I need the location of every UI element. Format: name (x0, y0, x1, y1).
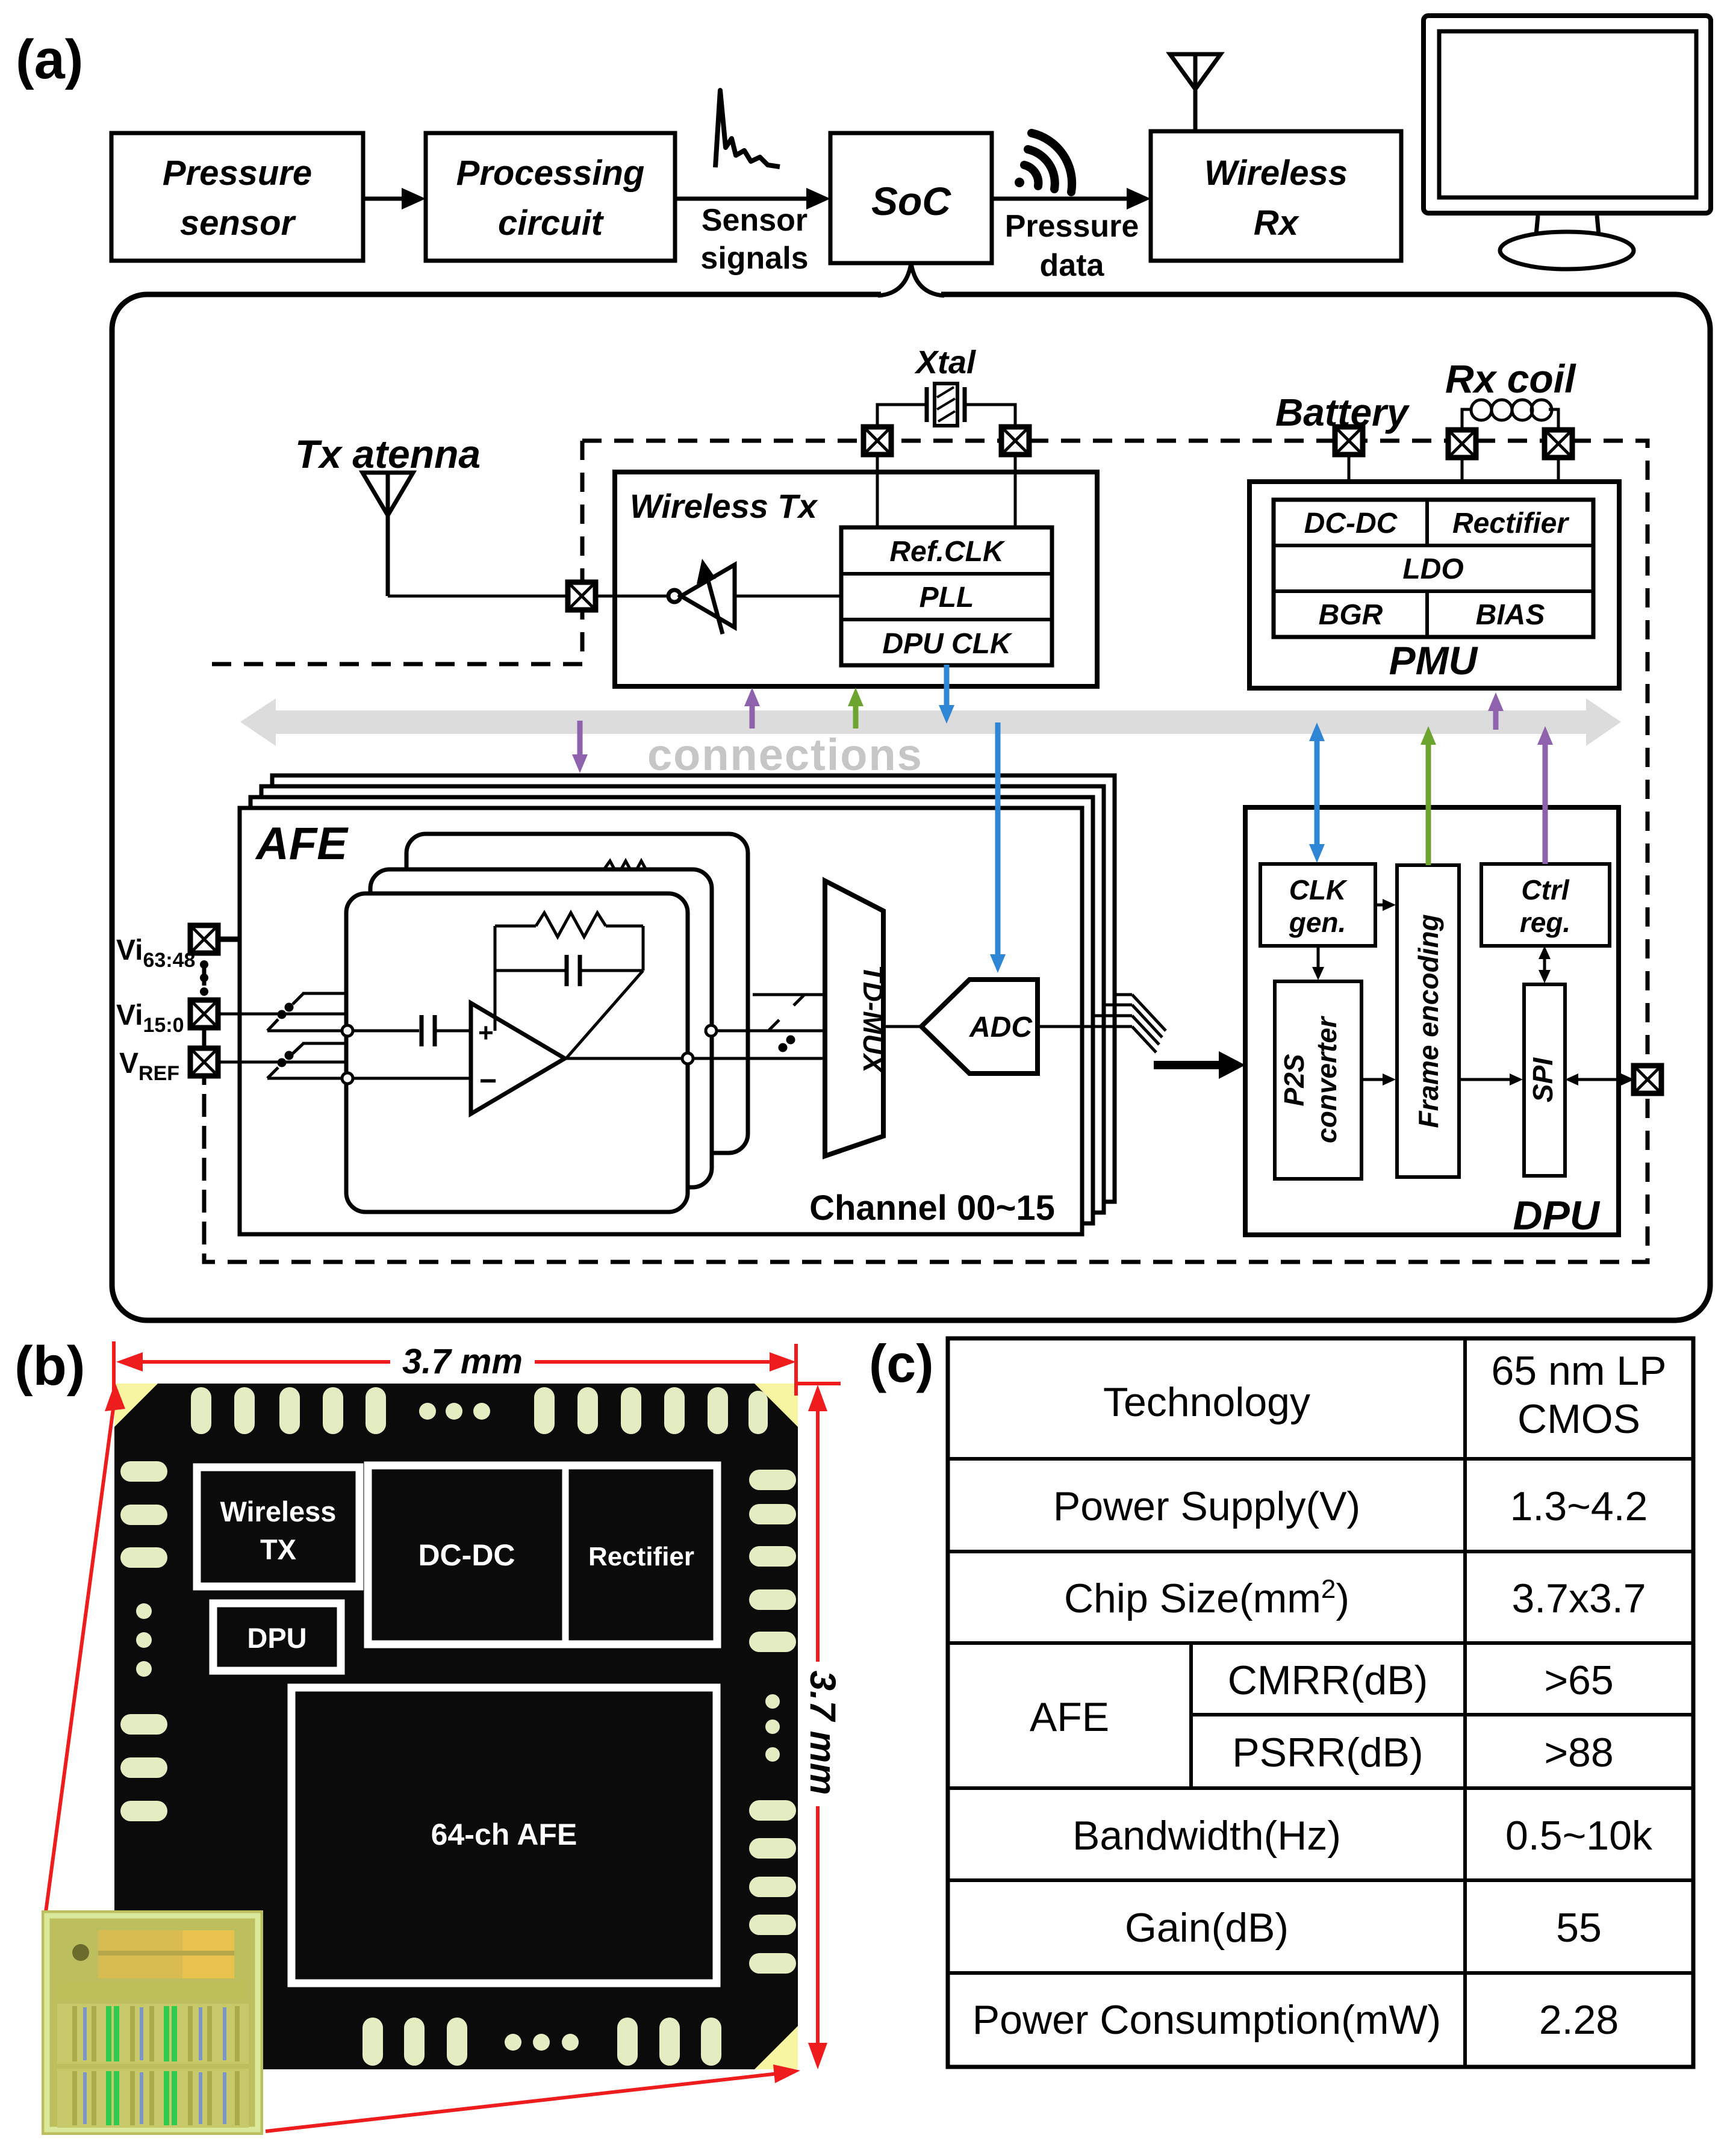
svg-text:Pressure: Pressure (163, 154, 312, 193)
bus ripper lower (267, 1043, 346, 1078)
connections bus band (240, 698, 1621, 746)
pads left column (120, 1461, 167, 1821)
arrow green up to Wireless Tx (848, 688, 863, 729)
svg-text:BGR: BGR (1319, 599, 1383, 631)
bus ripper right (717, 995, 825, 1051)
chip block DPU (213, 1603, 341, 1671)
node circle on channel edge upper (342, 1025, 353, 1036)
svg-text:Pressure: Pressure (1005, 209, 1139, 244)
block Processing circuit (426, 133, 675, 261)
svg-text:55: 55 (1556, 1905, 1602, 1951)
svg-text:TD-MUX: TD-MUX (857, 965, 889, 1074)
pad xtal right (1001, 427, 1029, 455)
RF wave icon (1015, 133, 1072, 192)
bus lines to DPU (1095, 995, 1166, 1052)
svg-text:gen.: gen. (1289, 907, 1346, 938)
table grid (948, 1338, 1693, 2067)
resistor feedback (495, 913, 643, 937)
svg-text:signals: signals (700, 241, 808, 276)
capacitor input (422, 1015, 435, 1046)
pad Vi15:0 (190, 1000, 218, 1028)
wire op-amp output (565, 1057, 825, 1060)
arrow green up from Frame encoding (1420, 726, 1436, 865)
svg-text:(a): (a) (16, 29, 83, 90)
svg-text:64-ch AFE: 64-ch AFE (431, 1818, 577, 1851)
table rows AFE CMRR PSRR (1030, 1657, 1614, 1775)
block SoC (830, 133, 992, 263)
block AFE front (240, 808, 1082, 1234)
capacitor feedback (495, 926, 643, 1058)
svg-text:AFE: AFE (255, 818, 349, 869)
pad coil right (1545, 430, 1572, 458)
svg-text:AFE: AFE (1030, 1694, 1109, 1740)
dashed chip boundary (204, 441, 1648, 1262)
chip die (114, 1384, 798, 2069)
clock stack box Ref.CLK / PLL / DPU CLK (841, 527, 1052, 665)
chamfer top-left (114, 1384, 158, 1427)
svg-text:>88: >88 (1544, 1730, 1613, 1775)
arrow blue long down to ADC (990, 722, 1006, 973)
wire ADC output (1038, 1025, 1132, 1028)
svg-text:3.7 mm: 3.7 mm (803, 1671, 843, 1795)
svg-text:Ref.CLK: Ref.CLK (889, 536, 1006, 568)
svg-text:PMU: PMU (1389, 638, 1479, 683)
chip block Wireless TX (197, 1467, 359, 1586)
table row Chip Size (1064, 1574, 1646, 1621)
crystal Xtal (927, 384, 965, 426)
svg-text:DPU CLK: DPU CLK (882, 628, 1013, 660)
table row Bandwidth (1072, 1813, 1653, 1859)
red zoom line bottom-right (266, 2064, 800, 2131)
block Wireless Tx (615, 472, 1097, 686)
svg-text:PLL: PLL (920, 582, 974, 614)
svg-text:Wireless: Wireless (1204, 154, 1348, 193)
block P2S converter (1275, 981, 1361, 1179)
svg-text:circuit: circuit (498, 203, 605, 243)
resistor peek of hidden channel (604, 861, 655, 875)
arrow blue double CLK gen (1309, 722, 1325, 863)
pad battery (1335, 427, 1363, 455)
svg-text:CMRR(dB): CMRR(dB) (1228, 1657, 1428, 1703)
arrow Frame encoding to SPI (1459, 1073, 1523, 1086)
svg-text:Bandwidth(Hz): Bandwidth(Hz) (1072, 1813, 1341, 1859)
block Wireless Rx (1151, 131, 1401, 261)
svg-text:CLK: CLK (1289, 874, 1348, 906)
svg-text:connections: connections (647, 730, 923, 780)
wire battery pad to DC-DC (1348, 441, 1351, 500)
svg-text:(b): (b) (14, 1335, 85, 1397)
arrow purple down to AFE (572, 721, 588, 773)
svg-text:Rectifier: Rectifier (588, 1542, 694, 1571)
wire VREF into fan (204, 1061, 346, 1064)
arrow blue down from DPU CLK (939, 665, 954, 724)
arrow CLK gen to P2S (1312, 946, 1324, 980)
pad coil left (1448, 430, 1476, 458)
svg-text:LDO: LDO (1402, 553, 1463, 585)
svg-text:Technology: Technology (1103, 1379, 1310, 1425)
svg-text:Power Supply(V): Power Supply(V) (1053, 1483, 1360, 1529)
svg-text:DPU: DPU (247, 1622, 307, 1654)
svg-text:SPI: SPI (1527, 1057, 1558, 1102)
svg-text:65 nm LP: 65 nm LP (1491, 1348, 1666, 1394)
label Sensor signals (700, 203, 808, 276)
wire arrow sensor to processing (363, 188, 426, 210)
chamfer bottom-right (755, 2026, 798, 2069)
block Frame encoding (1397, 865, 1459, 1177)
svg-text:DC-DC: DC-DC (1304, 508, 1398, 539)
svg-text:(c): (c) (869, 1334, 934, 1393)
svg-text:sensor: sensor (180, 203, 297, 243)
power amplifier (596, 559, 841, 634)
svg-text:CMOS: CMOS (1517, 1396, 1640, 1442)
wires xtal to Ref.CLK (877, 405, 1015, 527)
red zoom line top-left (46, 1382, 125, 1912)
brace from SoC to SoC-internal box (878, 263, 944, 301)
arrow purple up from Ctrl reg (1537, 726, 1553, 864)
block SPI (1524, 984, 1565, 1176)
svg-text:PSRR(dB): PSRR(dB) (1232, 1730, 1423, 1775)
SoC internals outer rounded box (112, 294, 1710, 1320)
svg-text:data: data (1040, 248, 1105, 283)
svg-text:Rectifier: Rectifier (1452, 508, 1569, 539)
thick arrow into DPU (1154, 1051, 1245, 1079)
arrow Ctrl reg SPI double (1539, 946, 1551, 983)
pads bottom row (138, 2018, 721, 2066)
svg-text:BIAS: BIAS (1476, 599, 1545, 631)
block Ctrl reg (1481, 864, 1610, 946)
svg-text:Processing: Processing (456, 154, 645, 193)
chip block 64-ch AFE (291, 1688, 717, 1983)
arrow SPI to pad double (1565, 1073, 1634, 1086)
inset die photo (42, 1910, 263, 2135)
AFE channel stack box 4 (272, 775, 1115, 1202)
arrow CLK gen to Frame encoding (1375, 899, 1396, 911)
chamfer top-right (755, 1384, 798, 1427)
svg-text:Rx: Rx (1254, 203, 1300, 243)
table row Gain (1125, 1905, 1602, 1951)
svg-text:ADC: ADC (969, 1011, 1033, 1043)
svg-text:Xtal: Xtal (914, 344, 976, 381)
wires coil pads to Rectifier (1462, 444, 1558, 500)
pads top row (191, 1387, 768, 1434)
sensor pulse waveform (715, 90, 780, 167)
wire Vi15:0 into fan (204, 1013, 346, 1016)
svg-text:+: + (478, 1018, 494, 1048)
block PMU (1249, 482, 1619, 688)
svg-text:Ctrl: Ctrl (1521, 874, 1569, 906)
svg-text:Sensor: Sensor (702, 203, 807, 238)
adc ADC (921, 980, 1038, 1073)
pad Vi63:48 (190, 925, 218, 953)
svg-text:converter: converter (1311, 1016, 1342, 1143)
block CLK gen (1260, 864, 1375, 946)
dimension horizontal 3.7 mm (114, 1341, 796, 1396)
AFE channel stack box 2 (250, 797, 1093, 1223)
dotted gap on left boundary (200, 960, 208, 996)
channel rounded box middle (370, 869, 712, 1187)
svg-text:DPU: DPU (1513, 1193, 1600, 1238)
wire Vi63:48 pad to AFE (204, 937, 241, 942)
pad xtal left (863, 427, 891, 455)
arrow purple up to PMU (1488, 692, 1504, 730)
dimension vertical 3.7 mm (796, 1384, 841, 2069)
AFE channel stack box 3 (261, 786, 1104, 1213)
wire to input cap (353, 1030, 419, 1033)
wire cap to op-amp (435, 1030, 471, 1033)
svg-text:Rx coil: Rx coil (1445, 356, 1576, 401)
svg-text:Gain(dB): Gain(dB) (1125, 1905, 1289, 1951)
pad VREF (190, 1048, 218, 1076)
wire arrow processing to SoC (675, 188, 830, 210)
svg-text:Wireless Tx: Wireless Tx (630, 487, 819, 525)
wire VREF to op-amp minus (353, 1077, 471, 1080)
arrow P2S to Frame encoding (1361, 1073, 1396, 1086)
feedback node wire (494, 926, 497, 1031)
svg-text:2.28: 2.28 (1539, 1997, 1619, 2043)
svg-text:0.5~10k: 0.5~10k (1505, 1813, 1653, 1859)
svg-text:3.7 mm: 3.7 mm (402, 1342, 523, 1381)
svg-text:3.7x3.7: 3.7x3.7 (1511, 1576, 1646, 1621)
svg-text:−: − (479, 1064, 497, 1098)
svg-text:Wireless: Wireless (220, 1496, 337, 1527)
wire antenna to pad (388, 595, 568, 598)
table row Technology (1103, 1348, 1667, 1442)
node circle output front (682, 1053, 693, 1064)
node circle output mid (706, 1025, 717, 1036)
svg-text:SoC: SoC (871, 179, 951, 223)
svg-text:TX: TX (260, 1533, 296, 1565)
wire arrow SoC to Wireless Rx (992, 188, 1151, 210)
monitor icon (1424, 16, 1711, 269)
pad Tx antenna (568, 582, 596, 610)
bus ripper upper (267, 993, 346, 1031)
channel rounded box front (346, 893, 688, 1212)
Rx antenna (1170, 54, 1221, 131)
block DPU (1245, 807, 1619, 1235)
node circle on channel edge lower (342, 1073, 353, 1084)
svg-text:Tx atenna: Tx atenna (295, 432, 481, 476)
svg-text:Chip Size(mm2): Chip Size(mm2) (1064, 1574, 1349, 1621)
label Pressure data (1005, 209, 1139, 283)
inductor Rx coil (1462, 400, 1558, 430)
pad SPI (1634, 1066, 1661, 1093)
svg-text:Power Consumption(mW): Power Consumption(mW) (972, 1997, 1441, 2043)
arrow purple up to Wireless Tx (744, 688, 760, 729)
block Pressure sensor (111, 133, 363, 261)
Tx antenna symbol (363, 473, 413, 596)
wire mux to ADC (883, 1025, 921, 1028)
op-amp (471, 1003, 565, 1114)
pads right column (749, 1470, 796, 1974)
channel rounded box back (406, 834, 748, 1153)
svg-text:>65: >65 (1544, 1657, 1613, 1703)
svg-text:reg.: reg. (1520, 907, 1570, 938)
chip block DC-DC and Rectifier (368, 1465, 717, 1644)
svg-text:DC-DC: DC-DC (418, 1538, 515, 1572)
svg-text:Channel 00~15: Channel 00~15 (809, 1188, 1055, 1228)
svg-text:Frame encoding: Frame encoding (1413, 914, 1444, 1128)
svg-text:1.3~4.2: 1.3~4.2 (1510, 1483, 1648, 1529)
mux TD-MUX (825, 881, 889, 1156)
table row Power Supply (1053, 1483, 1648, 1529)
table row Power Consumption (972, 1997, 1619, 2043)
svg-text:P2S: P2S (1278, 1054, 1310, 1106)
